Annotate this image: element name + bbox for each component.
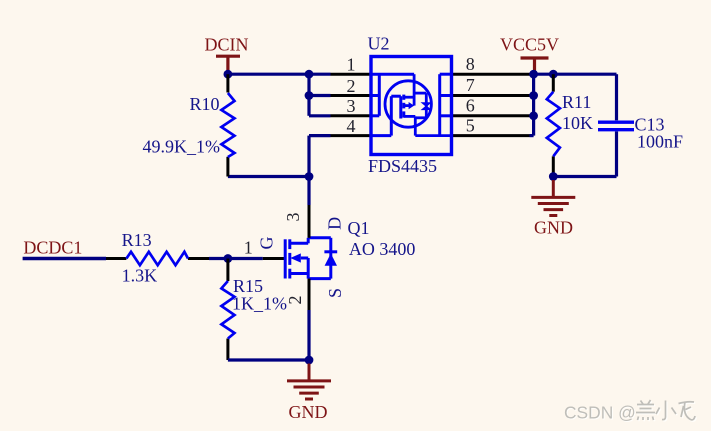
wire R10 bottom — [228, 175, 309, 178]
svg-text:D: D — [324, 217, 344, 230]
U2 pin 6 — [452, 114, 530, 117]
wire row3 stub — [309, 114, 331, 117]
svg-text:6: 6 — [466, 96, 475, 116]
junction R11 top — [549, 70, 558, 79]
Q1 gate pin — [263, 257, 285, 260]
U2 mosfet source branch — [404, 74, 414, 105]
junction node A row1 — [305, 70, 314, 79]
watermark CJK glyphs — [637, 401, 696, 421]
wire source to gnd node — [307, 310, 310, 360]
svg-text:R10: R10 — [189, 94, 219, 114]
wire row6 stub — [530, 114, 534, 117]
junction GND right — [549, 172, 558, 181]
wire R13 to node — [209, 257, 263, 260]
svg-text:VCC5V: VCC5V — [500, 35, 559, 55]
U2 pin 1 — [331, 73, 372, 76]
svg-text:2: 2 — [285, 296, 305, 305]
svg-text:AO 3400: AO 3400 — [349, 239, 416, 259]
svg-text:R13: R13 — [122, 230, 152, 250]
capacitor C13 — [598, 122, 634, 130]
U2 body diode — [414, 93, 426, 118]
U2 pin 8 — [452, 73, 530, 76]
U2 pin 2 — [331, 94, 372, 97]
power port DCIN — [216, 56, 240, 74]
svg-text:DCIN: DCIN — [205, 35, 249, 55]
wire node to drain — [307, 177, 310, 206]
resistor R11 — [552, 74, 555, 176]
resistor R15 — [226, 259, 229, 361]
svg-text:GND: GND — [289, 402, 328, 422]
svg-text:GND: GND — [534, 218, 573, 238]
wire row2 stub — [309, 94, 331, 97]
wire vertical rows1-3 tie — [307, 74, 310, 116]
wire C13 top stem — [615, 74, 618, 120]
wire row5 stub — [530, 134, 534, 137]
ground symbol right — [531, 180, 575, 216]
wire right tie column — [532, 74, 535, 135]
U2 mosfet drain branch — [404, 116, 452, 135]
U2 internal left bracket — [371, 74, 414, 116]
transistor Q1 — [285, 238, 337, 279]
svg-text:CSDN @: CSDN @ — [564, 402, 636, 422]
svg-text:G: G — [257, 237, 277, 250]
Q1 drain pin — [308, 204, 311, 238]
svg-text:1: 1 — [244, 238, 253, 258]
U2 pin 3 — [331, 114, 372, 117]
junction R13/R15/gate — [224, 254, 233, 263]
svg-text:1K_1%: 1K_1% — [232, 294, 287, 314]
svg-text:U2: U2 — [368, 34, 390, 54]
U2 internal gate path — [371, 96, 401, 135]
U2 pin 5 — [452, 134, 530, 137]
svg-text:10K: 10K — [562, 113, 593, 133]
svg-text:3: 3 — [347, 96, 356, 116]
wire R15 bottom to gnd node — [228, 358, 309, 361]
junction node gate/R10 — [305, 172, 314, 181]
Q1 bulk arrowhead — [290, 253, 301, 262]
junction row2 — [305, 91, 314, 100]
svg-text:S: S — [325, 288, 345, 298]
wire DCIN to U2 row1 — [228, 73, 331, 76]
junction at DCIN — [224, 70, 233, 79]
op-amp U2 body box — [371, 57, 452, 155]
svg-text:1.3K: 1.3K — [122, 266, 158, 286]
svg-text:49.9K_1%: 49.9K_1% — [143, 137, 221, 157]
Q1 body diode triangle — [325, 253, 337, 265]
wire R11/C13 bottom — [553, 175, 616, 178]
U2 mosfet circle — [385, 81, 431, 127]
svg-text:2: 2 — [347, 76, 356, 96]
ground symbol left — [287, 364, 331, 400]
resistor R13 — [106, 257, 209, 260]
wire VCC5V bus row8 — [530, 73, 617, 76]
svg-text:DCDC1: DCDC1 — [23, 238, 82, 258]
wire gate node to pin4 — [309, 136, 331, 177]
svg-text:5: 5 — [466, 115, 475, 135]
junction VCC column — [529, 70, 538, 79]
svg-text:7: 7 — [466, 75, 475, 95]
svg-text:Q1: Q1 — [348, 218, 370, 238]
svg-text:1: 1 — [347, 55, 356, 75]
svg-text:FDS4435: FDS4435 — [368, 156, 437, 176]
wire DCDC1 — [23, 257, 106, 260]
power port VCC5V — [521, 58, 549, 74]
wire C13 bottom stem — [615, 132, 618, 177]
junction GND left — [305, 356, 314, 365]
svg-text:8: 8 — [466, 54, 475, 74]
svg-text:3: 3 — [283, 213, 303, 222]
wire row7 stub — [530, 94, 534, 97]
U2 internal right bracket — [440, 74, 452, 135]
svg-text:100nF: 100nF — [637, 132, 683, 152]
junction row7 — [529, 91, 538, 100]
U2 mosfet bulk arrow — [404, 104, 409, 107]
svg-text:R11: R11 — [562, 92, 591, 112]
U2 mosfet channel dashes — [402, 95, 405, 118]
U2 pin 7 — [452, 94, 530, 97]
Q1 source pin — [308, 279, 311, 312]
svg-text:4: 4 — [347, 116, 356, 136]
resistor R10 — [226, 74, 229, 176]
U2 pin 4 — [331, 134, 372, 137]
junction row6 — [529, 111, 538, 120]
